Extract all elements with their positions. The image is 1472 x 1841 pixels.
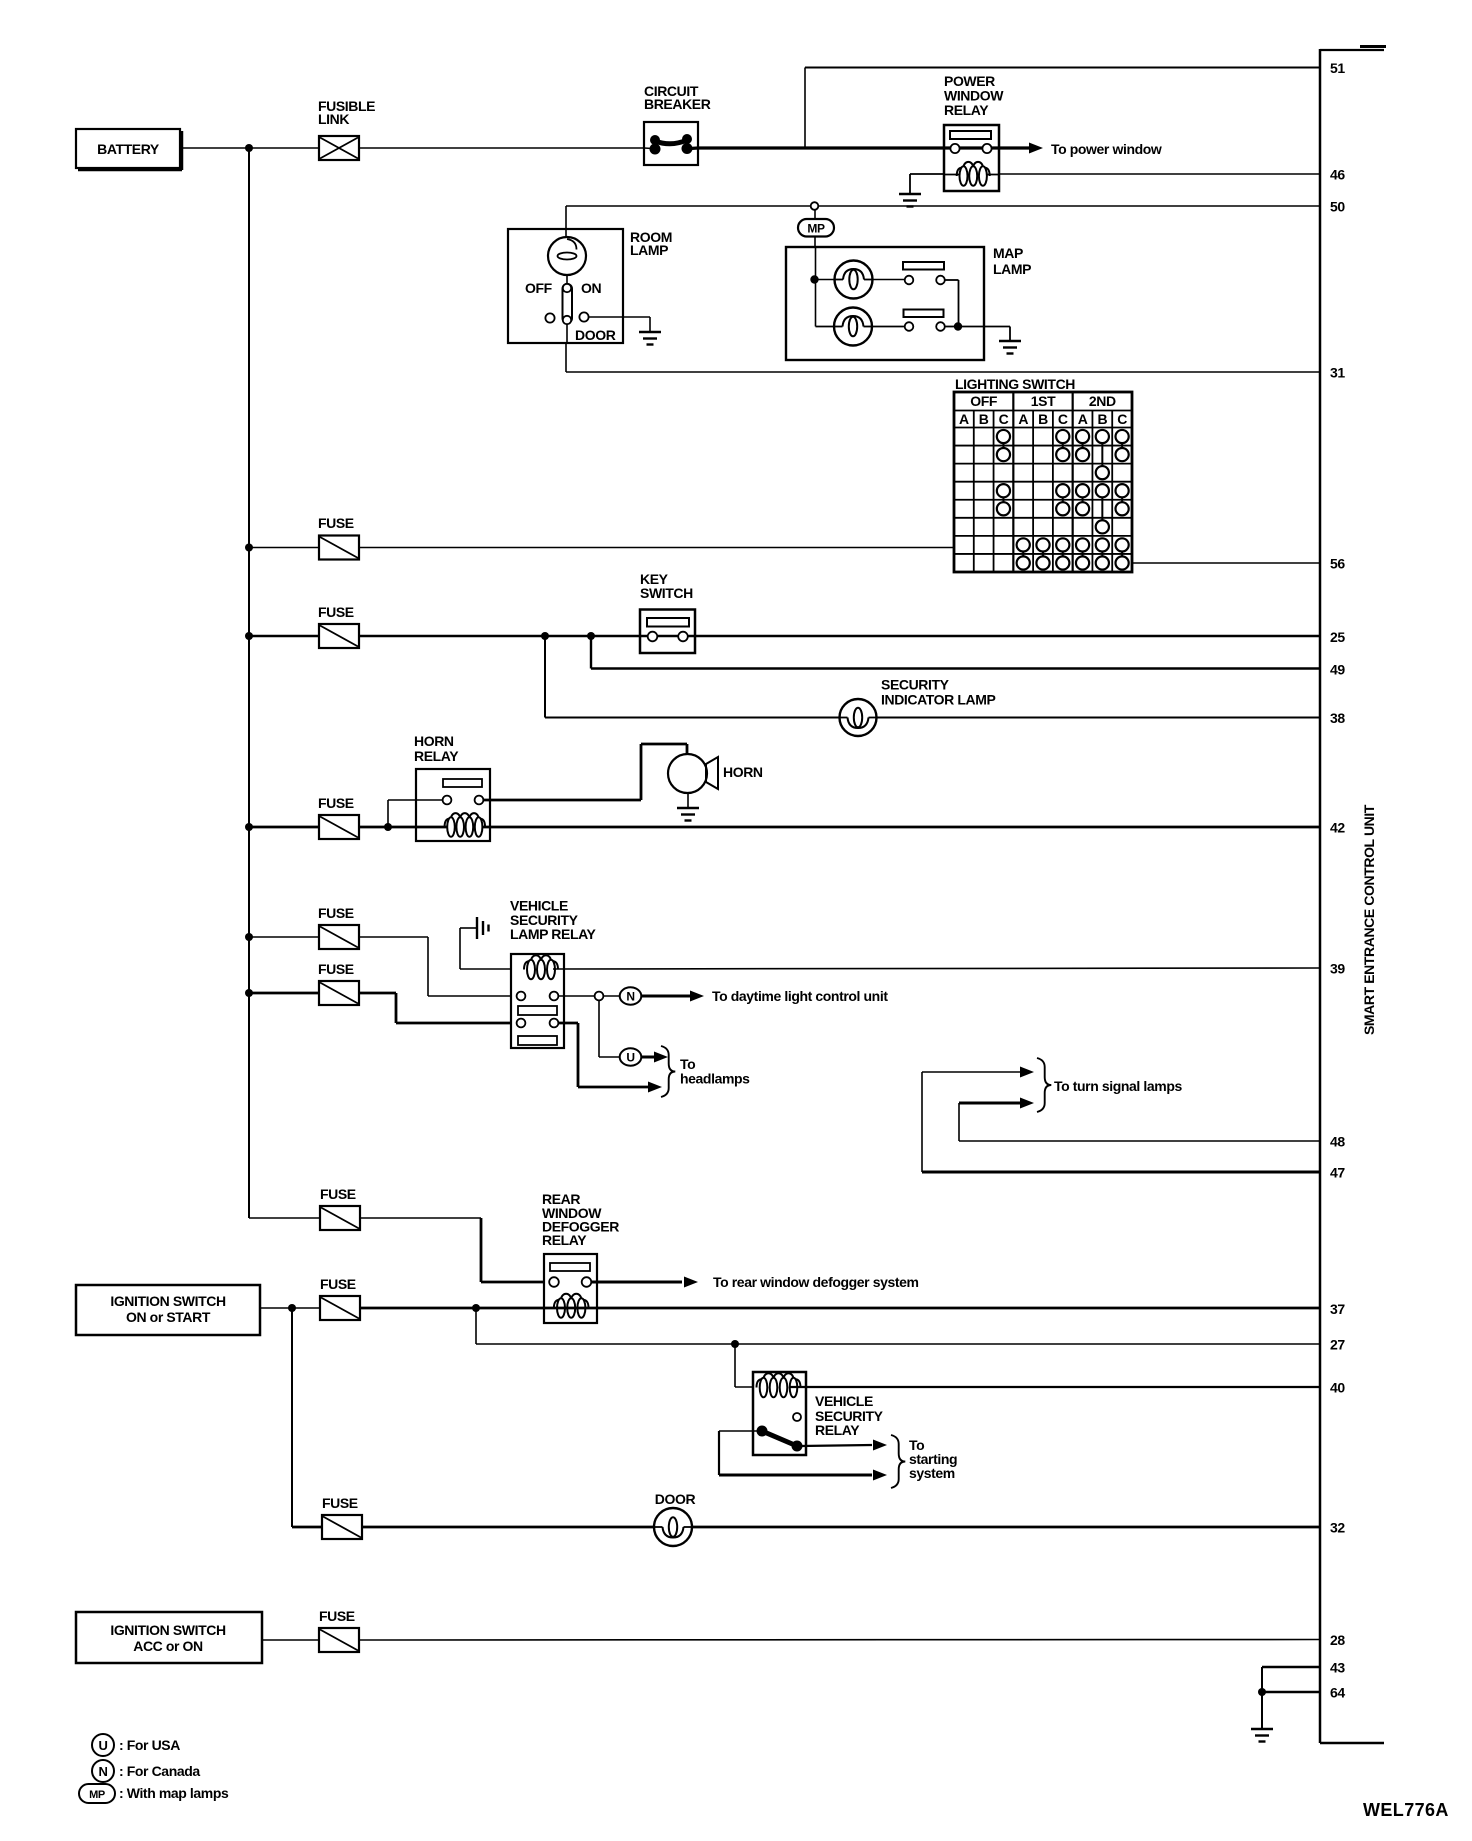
svg-text:SMART ENTRANCE CONTROL UNIT: SMART ENTRANCE CONTROL UNIT: [1361, 804, 1377, 1035]
svg-text:LAMP: LAMP: [630, 242, 668, 258]
svg-text:SECURITY: SECURITY: [881, 677, 950, 693]
svg-text:25: 25: [1330, 629, 1345, 645]
svg-text:OFF: OFF: [970, 393, 998, 409]
svg-text:RELAY: RELAY: [815, 1422, 860, 1438]
svg-text:: For Canada: : For Canada: [119, 1763, 200, 1779]
svg-text:27: 27: [1330, 1337, 1345, 1353]
svg-text:37: 37: [1330, 1301, 1345, 1317]
svg-text:C: C: [999, 411, 1009, 427]
svg-text:HORN: HORN: [723, 764, 763, 780]
svg-text:C: C: [1058, 411, 1068, 427]
svg-text:HORN: HORN: [414, 733, 454, 749]
svg-text:FUSE: FUSE: [319, 1608, 355, 1624]
svg-text:FUSE: FUSE: [318, 515, 354, 531]
svg-text:RELAY: RELAY: [944, 102, 989, 118]
svg-text:LIGHTING SWITCH: LIGHTING SWITCH: [955, 376, 1075, 392]
svg-text:FUSE: FUSE: [318, 604, 354, 620]
svg-text:31: 31: [1330, 365, 1345, 381]
svg-text:32: 32: [1330, 1520, 1345, 1536]
svg-text:38: 38: [1330, 710, 1345, 726]
svg-text:BREAKER: BREAKER: [644, 96, 711, 112]
svg-text:47: 47: [1330, 1165, 1345, 1181]
svg-text:FUSE: FUSE: [318, 795, 354, 811]
svg-text:IGNITION SWITCH: IGNITION SWITCH: [110, 1622, 226, 1638]
svg-text:A: A: [1018, 411, 1028, 427]
svg-text:LINK: LINK: [318, 111, 349, 127]
svg-text:SWITCH: SWITCH: [640, 585, 693, 601]
svg-text:A: A: [1078, 411, 1088, 427]
svg-text:MP: MP: [89, 1789, 105, 1801]
svg-text:ON: ON: [581, 280, 601, 296]
svg-text:LAMP RELAY: LAMP RELAY: [510, 926, 597, 942]
svg-text:To power window: To power window: [1051, 141, 1162, 157]
svg-text:64: 64: [1330, 1685, 1345, 1701]
svg-text:FUSE: FUSE: [322, 1495, 358, 1511]
svg-text:WEL776A: WEL776A: [1363, 1800, 1449, 1820]
svg-text:C: C: [1117, 411, 1127, 427]
svg-text:FUSE: FUSE: [320, 1186, 356, 1202]
svg-text:ON or START: ON or START: [126, 1309, 211, 1325]
svg-text:ACC or ON: ACC or ON: [133, 1638, 203, 1654]
svg-text:2ND: 2ND: [1089, 393, 1116, 409]
svg-text:48: 48: [1330, 1134, 1345, 1150]
svg-text:U: U: [626, 1051, 634, 1065]
svg-text:system: system: [909, 1465, 955, 1481]
svg-text:43: 43: [1330, 1660, 1345, 1676]
svg-text:: With map lamps: : With map lamps: [119, 1785, 229, 1801]
svg-text:MAP: MAP: [993, 245, 1023, 261]
svg-text:headlamps: headlamps: [680, 1071, 750, 1087]
svg-text:B: B: [1097, 411, 1107, 427]
svg-text:LAMP: LAMP: [993, 261, 1031, 277]
svg-text:FUSE: FUSE: [318, 905, 354, 921]
svg-text:39: 39: [1330, 961, 1345, 977]
svg-text:MP: MP: [807, 222, 825, 236]
svg-text:DOOR: DOOR: [655, 1491, 696, 1507]
svg-text:FUSE: FUSE: [320, 1276, 356, 1292]
svg-text:RELAY: RELAY: [542, 1232, 587, 1248]
svg-text:56: 56: [1330, 556, 1345, 572]
svg-text:50: 50: [1330, 199, 1345, 215]
svg-text:49: 49: [1330, 662, 1345, 678]
svg-text:To rear window defogger system: To rear window defogger system: [713, 1274, 919, 1290]
svg-text:42: 42: [1330, 820, 1345, 836]
svg-text:U: U: [99, 1738, 108, 1753]
svg-text:BATTERY: BATTERY: [97, 141, 160, 157]
svg-text:INDICATOR LAMP: INDICATOR LAMP: [881, 692, 995, 708]
svg-text:N: N: [99, 1764, 108, 1779]
svg-text:A: A: [959, 411, 969, 427]
svg-text:46: 46: [1330, 167, 1345, 183]
svg-text:1ST: 1ST: [1031, 393, 1056, 409]
svg-text:To turn signal lamps: To turn signal lamps: [1054, 1078, 1182, 1094]
svg-text:28: 28: [1330, 1632, 1345, 1648]
svg-text:51: 51: [1330, 60, 1345, 76]
svg-text:RELAY: RELAY: [414, 748, 459, 764]
svg-text:: For USA: : For USA: [119, 1737, 180, 1753]
svg-text:N: N: [626, 990, 634, 1004]
svg-text:40: 40: [1330, 1380, 1345, 1396]
svg-text:B: B: [1038, 411, 1048, 427]
svg-text:OFF: OFF: [525, 280, 553, 296]
svg-text:B: B: [979, 411, 989, 427]
svg-text:DOOR: DOOR: [575, 327, 616, 343]
svg-text:VEHICLE: VEHICLE: [815, 1393, 873, 1409]
svg-text:FUSE: FUSE: [318, 961, 354, 977]
svg-text:IGNITION SWITCH: IGNITION SWITCH: [110, 1293, 226, 1309]
svg-text:To daytime light control unit: To daytime light control unit: [712, 988, 888, 1004]
